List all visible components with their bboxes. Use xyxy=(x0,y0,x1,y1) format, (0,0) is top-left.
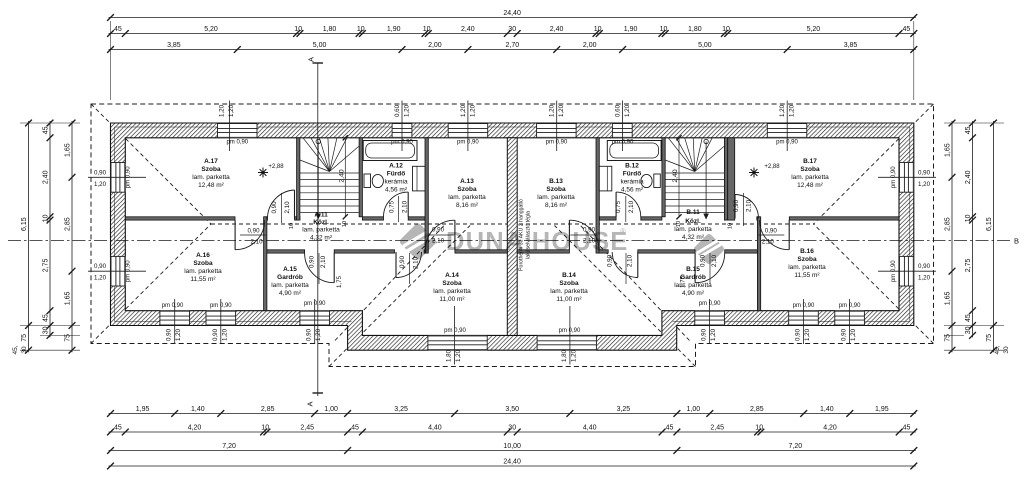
svg-text:2,10: 2,10 xyxy=(320,255,327,268)
svg-text:2,85: 2,85 xyxy=(65,217,72,231)
svg-text:B.16: B.16 xyxy=(800,248,814,255)
svg-text:B.13: B.13 xyxy=(549,178,563,185)
svg-text:1,20: 1,20 xyxy=(455,349,462,362)
svg-text:1,65: 1,65 xyxy=(945,143,952,157)
svg-text:30: 30 xyxy=(43,326,50,334)
svg-text:0,90: 0,90 xyxy=(271,201,278,214)
door B.16 (0.90) : swing arc xyxy=(760,220,790,250)
svg-text:2,10: 2,10 xyxy=(746,199,753,212)
door B.17 (0.90) : swing arc xyxy=(735,195,759,219)
svg-text:24,40: 24,40 xyxy=(503,459,521,466)
svg-text:0,75: 0,75 xyxy=(389,200,396,213)
svg-text:1,20: 1,20 xyxy=(779,104,786,117)
svg-text:1,20: 1,20 xyxy=(94,181,107,188)
svg-text:45: 45 xyxy=(965,314,972,322)
svg-text:2,10: 2,10 xyxy=(762,239,775,246)
svg-text:45: 45 xyxy=(903,425,911,432)
door B.13 (0.90) : swing arc xyxy=(569,220,599,250)
washbasin cabinet B.12 xyxy=(599,166,612,191)
door B.12 dim 0,75/2,10 xyxy=(625,196,627,222)
svg-text:2,10: 2,10 xyxy=(432,238,445,245)
extension lines right side xyxy=(944,122,1004,124)
svg-text:0,90: 0,90 xyxy=(918,169,931,176)
outer wall band (hatched, 45cm) xyxy=(111,123,914,350)
door B.15 (0.90) : swing arc xyxy=(695,253,725,283)
svg-text:1,20: 1,20 xyxy=(218,104,225,117)
door A.16 (0.90) : swing arc xyxy=(235,220,265,250)
wall pier at B.16 door (unit B mirror) xyxy=(757,217,760,220)
west window size dims xyxy=(88,176,146,178)
washbasin cabinet A.12 xyxy=(413,166,426,191)
svg-text:0,90: 0,90 xyxy=(309,255,316,268)
door A.12 bath (0.75) : leaf xyxy=(407,192,409,217)
svg-text:pm 0,90: pm 0,90 xyxy=(444,328,466,334)
svg-text:10: 10 xyxy=(289,223,295,229)
door A.16 dim 0,90/2,10 xyxy=(240,234,266,236)
roof hip line bottom-left xyxy=(91,224,211,344)
svg-text:11,55 m²: 11,55 m² xyxy=(190,276,216,283)
svg-text:Szoba: Szoba xyxy=(193,260,213,267)
wall stairs west xyxy=(297,138,300,220)
svg-text:1,80: 1,80 xyxy=(446,349,453,362)
door A.17 (0.90) : leaf xyxy=(294,190,296,219)
right dimension column outer xyxy=(993,121,995,352)
bay valley dashed right inner xyxy=(580,225,690,341)
wall bath B.12 west (unit B mirror) xyxy=(662,138,665,217)
svg-text:pm 0,90: pm 0,90 xyxy=(162,303,184,309)
svg-text:10: 10 xyxy=(676,221,682,227)
svg-text:2,10: 2,10 xyxy=(250,239,263,246)
svg-text:1,65: 1,65 xyxy=(945,291,952,305)
extension lines top corners xyxy=(110,21,112,100)
window A.15 south (0.90) xyxy=(300,311,330,326)
svg-text:lam. parketta: lam. parketta xyxy=(184,268,222,275)
svg-text:1,75: 1,75 xyxy=(336,275,343,288)
svg-text:2,10: 2,10 xyxy=(583,238,596,245)
wall pier at A.16 door xyxy=(265,217,268,220)
svg-text:+2,88: +2,88 xyxy=(268,164,284,170)
svg-text:1,20: 1,20 xyxy=(918,181,931,188)
svg-text:6,15: 6,15 xyxy=(986,217,993,231)
door A.15 dim 0,90/2,10 xyxy=(318,253,320,284)
svg-text:B.15: B.15 xyxy=(686,266,700,273)
level mark +2,88 unit B xyxy=(749,168,759,178)
svg-text:A.13: A.13 xyxy=(460,178,474,185)
wall stairs west (unit B mirror) xyxy=(724,138,727,220)
staircase unit B treads xyxy=(665,172,724,174)
window A.17 west (0.90) xyxy=(111,163,126,193)
level mark +2,88 unit A xyxy=(258,168,268,178)
svg-text:2,75: 2,75 xyxy=(43,258,50,272)
svg-text:lakáselválasztó tégla: lakáselválasztó tégla xyxy=(526,211,532,259)
window A.16 south left (0.90) xyxy=(160,311,190,326)
bay valley dashed left inner xyxy=(335,225,445,341)
door B.15 (0.90) : leaf xyxy=(694,253,696,283)
svg-text:0,75: 0,75 xyxy=(615,200,622,213)
svg-text:1,75: 1,75 xyxy=(679,275,686,288)
svg-text:2,10: 2,10 xyxy=(284,201,291,214)
door B.17 (0.90) : leaf xyxy=(734,195,736,219)
svg-text:11,00 m²: 11,00 m² xyxy=(439,296,465,303)
svg-text:12,48 m²: 12,48 m² xyxy=(198,182,224,189)
section line A-A xyxy=(317,63,319,396)
svg-text:1,80: 1,80 xyxy=(323,26,337,33)
svg-text:A.12: A.12 xyxy=(389,163,403,170)
svg-text:0,90: 0,90 xyxy=(94,169,107,176)
svg-text:1,20: 1,20 xyxy=(918,275,931,282)
svg-text:DUNA HOUSE: DUNA HOUSE xyxy=(446,228,628,256)
wall A.17/A.11 west segment xyxy=(125,217,235,220)
wall pier at A.17 door xyxy=(295,217,300,220)
window B.16 south left (0.90) xyxy=(835,311,865,326)
svg-text:1,90: 1,90 xyxy=(387,26,401,33)
svg-text:0,90: 0,90 xyxy=(432,227,445,234)
svg-text:2,70: 2,70 xyxy=(505,42,519,49)
svg-text:2,40: 2,40 xyxy=(338,169,345,182)
svg-text:7,20: 7,20 xyxy=(788,443,802,450)
svg-text:5,00: 5,00 xyxy=(313,42,327,49)
svg-text:+2,88: +2,88 xyxy=(764,164,780,170)
svg-text:A: A xyxy=(306,401,315,406)
svg-text:45: 45 xyxy=(965,126,972,134)
svg-text:lam. parketta: lam. parketta xyxy=(433,288,471,295)
svg-text:1,20: 1,20 xyxy=(460,104,467,117)
svg-text:0,90: 0,90 xyxy=(94,263,107,270)
svg-text:Szoba: Szoba xyxy=(797,256,817,263)
svg-text:Fürdő: Fürdő xyxy=(623,171,641,178)
svg-text:10: 10 xyxy=(357,26,365,33)
wall bath A.12 south west segment xyxy=(362,217,383,220)
svg-text:0,90: 0,90 xyxy=(701,328,708,341)
door A.17 (0.90) : swing arc xyxy=(267,190,294,219)
svg-text:2,45: 2,45 xyxy=(710,425,724,432)
wall bath B.12 south east segment (unit B mirror) xyxy=(599,217,616,220)
svg-text:10: 10 xyxy=(660,26,668,33)
svg-text:10: 10 xyxy=(294,26,302,33)
svg-text:0,60: 0,60 xyxy=(615,104,622,117)
svg-text:2,85: 2,85 xyxy=(945,217,952,231)
svg-text:2,40: 2,40 xyxy=(672,169,679,182)
door A.16 (0.90) : leaf xyxy=(234,220,236,250)
right dimension column middle xyxy=(972,121,974,337)
svg-text:10: 10 xyxy=(423,26,431,33)
svg-text:®: ® xyxy=(620,227,626,236)
svg-text:1,80: 1,80 xyxy=(561,349,568,362)
svg-text:0,90: 0,90 xyxy=(306,328,313,341)
south window size dims (rotated pairs) xyxy=(174,299,176,344)
outer wall insulation layer line xyxy=(115,127,910,322)
svg-text:45: 45 xyxy=(351,425,359,432)
window A.16 south right (0.90) xyxy=(206,311,236,326)
window B.13 north (1.20) xyxy=(537,123,577,138)
svg-text:0,90: 0,90 xyxy=(247,228,260,235)
svg-text:lam. parketta: lam. parketta xyxy=(271,282,309,289)
watermark DUNA HOUSE logo left xyxy=(397,221,726,267)
toilet A.12 xyxy=(364,174,371,188)
svg-text:4,40: 4,40 xyxy=(583,425,597,432)
svg-text:A: A xyxy=(307,57,316,62)
wall bath A.12 south east segment xyxy=(408,217,425,220)
wall corridor south B seg1 xyxy=(725,250,758,253)
svg-text:lam. parketta: lam. parketta xyxy=(537,194,575,201)
svg-text:45,: 45, xyxy=(12,345,19,354)
door B.14 dim 0,90/2,10 xyxy=(625,253,627,284)
svg-text:5,20: 5,20 xyxy=(204,26,218,33)
svg-text:B.12: B.12 xyxy=(625,163,639,170)
svg-text:1,20: 1,20 xyxy=(624,104,631,117)
svg-text:1,80: 1,80 xyxy=(688,26,702,33)
svg-text:A.11: A.11 xyxy=(314,212,328,219)
wall bath A.12 west xyxy=(359,138,362,217)
wall corridor south B seg2 xyxy=(638,250,695,253)
svg-text:0,90: 0,90 xyxy=(841,328,848,341)
svg-text:1,65: 1,65 xyxy=(65,143,72,157)
svg-text:10: 10 xyxy=(342,221,348,227)
svg-text:lam. parketta: lam. parketta xyxy=(791,174,829,181)
bottom dimension row 4: total 24,40 xyxy=(109,465,916,467)
svg-text:10: 10 xyxy=(261,425,269,432)
party wall Porotherm 30 xyxy=(507,138,517,336)
svg-text:Szoba: Szoba xyxy=(442,280,462,287)
svg-text:24,40: 24,40 xyxy=(503,10,521,17)
svg-text:10: 10 xyxy=(43,214,50,222)
svg-text:Szoba: Szoba xyxy=(546,186,566,193)
svg-text:45: 45 xyxy=(114,425,122,432)
roof hip line bottom-right xyxy=(814,224,934,344)
svg-text:10: 10 xyxy=(965,214,972,222)
svg-text:4,32 m²: 4,32 m² xyxy=(682,234,705,241)
north window size dims (rotated pairs) xyxy=(229,101,231,152)
svg-text:kerámia: kerámia xyxy=(384,179,408,186)
bay valley dashed right outer xyxy=(555,226,696,367)
svg-text:Gardrób: Gardrób xyxy=(277,274,303,281)
staircase unit A flight dimension 2,40 xyxy=(344,138,346,217)
svg-text:4,90 m²: 4,90 m² xyxy=(279,290,302,297)
svg-text:75: 75 xyxy=(945,334,952,342)
svg-text:11,55 m²: 11,55 m² xyxy=(794,272,820,279)
wall corridor south seg2 xyxy=(334,250,394,253)
svg-text:10: 10 xyxy=(727,223,733,229)
svg-text:1,95: 1,95 xyxy=(136,406,150,413)
wall A.16 east xyxy=(264,217,267,311)
door A.13 (0.90) : swing arc xyxy=(425,220,455,250)
svg-text:2,40: 2,40 xyxy=(43,170,50,184)
svg-text:10: 10 xyxy=(722,26,730,33)
svg-text:45: 45 xyxy=(666,425,674,432)
svg-text:Közl.: Közl. xyxy=(685,218,701,225)
svg-text:75: 75 xyxy=(65,334,72,342)
bottom dimension row 3 xyxy=(109,450,916,452)
window A.16 west (0.90) xyxy=(111,256,126,286)
svg-text:2,10: 2,10 xyxy=(628,200,635,213)
svg-text:10,00: 10,00 xyxy=(503,443,521,450)
svg-text:30: 30 xyxy=(508,26,516,33)
svg-text:3,85: 3,85 xyxy=(167,42,181,49)
svg-text:2,75: 2,75 xyxy=(965,258,972,272)
door B.14 (0.90) : swing arc xyxy=(612,252,638,278)
east window size dims xyxy=(878,176,936,178)
svg-text:1,20: 1,20 xyxy=(850,328,857,341)
wall pier B.13/B.14 doors xyxy=(599,250,608,253)
svg-text:1,20: 1,20 xyxy=(804,328,811,341)
svg-text:2,40: 2,40 xyxy=(461,26,475,33)
wall bath B.12 east / B.13 west (unit B mirror) xyxy=(596,138,599,253)
svg-text:lam. parketta: lam. parketta xyxy=(788,264,826,271)
svg-text:1,40: 1,40 xyxy=(820,406,834,413)
svg-text:1,00: 1,00 xyxy=(686,406,700,413)
svg-text:A.16: A.16 xyxy=(196,252,210,259)
svg-text:4,56 m²: 4,56 m² xyxy=(385,187,408,194)
svg-text:2,00: 2,00 xyxy=(583,42,597,49)
svg-text:Szoba: Szoba xyxy=(457,186,477,193)
svg-text:0,90: 0,90 xyxy=(607,254,614,267)
staircase unit A walking line with arrow xyxy=(317,142,319,220)
door B.16 dim 0,90/2,10 xyxy=(758,234,784,236)
bottom dimension row 2 xyxy=(109,431,916,433)
door A.13 dim 0,90/2,10 xyxy=(428,234,454,236)
window B.16 east (0.90) xyxy=(899,256,914,286)
bathtub B.12 xyxy=(607,141,661,161)
svg-text:75: 75 xyxy=(986,334,993,342)
svg-text:7,20: 7,20 xyxy=(222,443,236,450)
svg-text:Szoba: Szoba xyxy=(559,280,579,287)
svg-text:Szoba: Szoba xyxy=(201,166,221,173)
svg-text:4,56 m²: 4,56 m² xyxy=(621,187,644,194)
svg-text:3,50: 3,50 xyxy=(505,406,519,413)
left dimension column outer: 6,15 / 75 xyxy=(28,121,30,352)
svg-text:0,60: 0,60 xyxy=(394,104,401,117)
window B.16 south right (0.90) xyxy=(789,311,819,326)
window A.17 north (1.20) xyxy=(218,123,258,138)
svg-text:Szoba: Szoba xyxy=(800,166,820,173)
svg-text:45: 45 xyxy=(43,314,50,322)
svg-text:2,00: 2,00 xyxy=(428,42,442,49)
svg-text:Közl.: Közl. xyxy=(313,219,329,226)
svg-text:2,10: 2,10 xyxy=(413,256,420,269)
svg-text:3,85: 3,85 xyxy=(844,42,858,49)
svg-text:lam. parketta: lam. parketta xyxy=(192,174,230,181)
bay valley dashed left outer xyxy=(329,226,470,367)
staircase unit B walking line with arrow xyxy=(705,142,707,220)
toilet B.12 xyxy=(654,174,661,188)
roof hip line top-right xyxy=(814,104,934,224)
svg-text:5,20: 5,20 xyxy=(807,26,821,33)
wall pier at B.17 door (unit B mirror) xyxy=(724,217,729,220)
svg-text:lam. parketta: lam. parketta xyxy=(448,194,486,201)
svg-text:1,00: 1,00 xyxy=(324,406,338,413)
svg-text:1,20: 1,20 xyxy=(175,328,182,341)
svg-text:B.17: B.17 xyxy=(803,158,817,165)
staircase unit B flight dimension 2,40 xyxy=(678,138,680,217)
svg-text:B.14: B.14 xyxy=(562,272,576,279)
svg-text:12,48 m²: 12,48 m² xyxy=(797,182,823,189)
svg-text:1,20: 1,20 xyxy=(789,104,796,117)
svg-text:30: 30 xyxy=(965,326,972,334)
svg-text:45,: 45, xyxy=(994,345,1001,354)
svg-text:1,20: 1,20 xyxy=(221,328,228,341)
svg-text:30: 30 xyxy=(508,425,516,432)
extension lines left side xyxy=(20,122,80,124)
door A.12 dim 0,75/2,10 xyxy=(398,196,400,222)
window A.14 south (1.80) xyxy=(428,335,487,350)
window A.13 north (1.20) xyxy=(448,123,488,138)
bay window size dims (rotated pairs) xyxy=(454,306,456,365)
svg-text:45: 45 xyxy=(43,126,50,134)
door A.12 bath (0.75) : swing arc xyxy=(384,192,409,217)
door B.16 (0.90) : leaf xyxy=(788,220,790,250)
svg-text:2,85: 2,85 xyxy=(750,406,764,413)
wall corridor south B seg3 (B.13 south) xyxy=(517,250,569,253)
svg-text:0,90: 0,90 xyxy=(795,328,802,341)
roof ridge line xyxy=(211,223,814,225)
svg-text:kerámia: kerámia xyxy=(620,179,644,186)
window B.17 east (0.90) xyxy=(899,163,914,193)
top dimension row 1: total 24,40 xyxy=(109,17,916,19)
svg-text:0,90: 0,90 xyxy=(733,199,740,212)
svg-text:1,20: 1,20 xyxy=(315,328,322,341)
window B.15 south (0.90) xyxy=(695,311,725,326)
eave overhang dashed outline xyxy=(91,104,934,367)
svg-text:0,90: 0,90 xyxy=(399,255,406,268)
svg-text:0,90: 0,90 xyxy=(918,263,931,270)
svg-text:1,20: 1,20 xyxy=(469,104,476,117)
svg-text:Porotherm 30 AKU 2 hanggátló: Porotherm 30 AKU 2 hanggátló xyxy=(519,199,525,271)
svg-text:1,20: 1,20 xyxy=(549,104,556,117)
door B.14 (0.90) : leaf xyxy=(637,252,639,278)
svg-text:1,20: 1,20 xyxy=(94,275,107,282)
door A.14 dim 0,90/2,10 xyxy=(409,253,411,284)
svg-text:A.15: A.15 xyxy=(283,266,297,273)
staircase unit A winder fan xyxy=(303,138,330,172)
window B.12 bath north (0.60) xyxy=(612,123,632,138)
staircase unit B winder fan xyxy=(668,138,695,172)
svg-text:1,20: 1,20 xyxy=(558,104,565,117)
svg-text:1,95: 1,95 xyxy=(875,406,889,413)
top dimension row 3: window axes xyxy=(109,49,916,51)
svg-text:2,10: 2,10 xyxy=(627,254,634,267)
svg-text:1,40: 1,40 xyxy=(191,406,205,413)
svg-text:4,40: 4,40 xyxy=(428,425,442,432)
wall corridor south seg1 xyxy=(267,250,305,253)
door B.15 dim 0,90/2,10 xyxy=(709,253,711,284)
svg-text:8,16 m²: 8,16 m² xyxy=(545,202,568,209)
wall stub B stairs east extension xyxy=(728,138,735,220)
svg-text:3,25: 3,25 xyxy=(617,406,631,413)
svg-text:2,10: 2,10 xyxy=(402,200,409,213)
svg-text:0,90: 0,90 xyxy=(583,227,596,234)
svg-text:A.17: A.17 xyxy=(204,158,218,165)
watermark logo fragment right xyxy=(692,232,727,267)
wall bath B.12 south west segment (unit B mirror) xyxy=(641,217,662,220)
door B.17 dim 0,90/2,10 xyxy=(743,193,745,226)
svg-text:B: B xyxy=(1014,237,1019,246)
window B.17 north (1.20) xyxy=(767,123,807,138)
svg-text:4,90 m²: 4,90 m² xyxy=(682,290,705,297)
svg-text:45: 45 xyxy=(903,26,911,33)
bottom dimension row 1 xyxy=(109,413,916,415)
svg-text:1,20: 1,20 xyxy=(228,104,235,117)
window A.12 bath north (0.60) xyxy=(392,123,412,138)
door B.13 dim 0,90/2,10 xyxy=(570,234,596,236)
svg-text:B.11: B.11 xyxy=(686,209,700,216)
window B.14 south (1.80) xyxy=(537,335,596,350)
door A.15 (0.90) : swing arc xyxy=(305,253,335,283)
svg-text:8,16 m²: 8,16 m² xyxy=(456,202,479,209)
door A.17 dim 0,90/2,10 xyxy=(281,193,283,223)
svg-text:1,20: 1,20 xyxy=(404,104,411,117)
svg-text:30: 30 xyxy=(1003,346,1010,354)
svg-text:1,90: 1,90 xyxy=(624,26,638,33)
